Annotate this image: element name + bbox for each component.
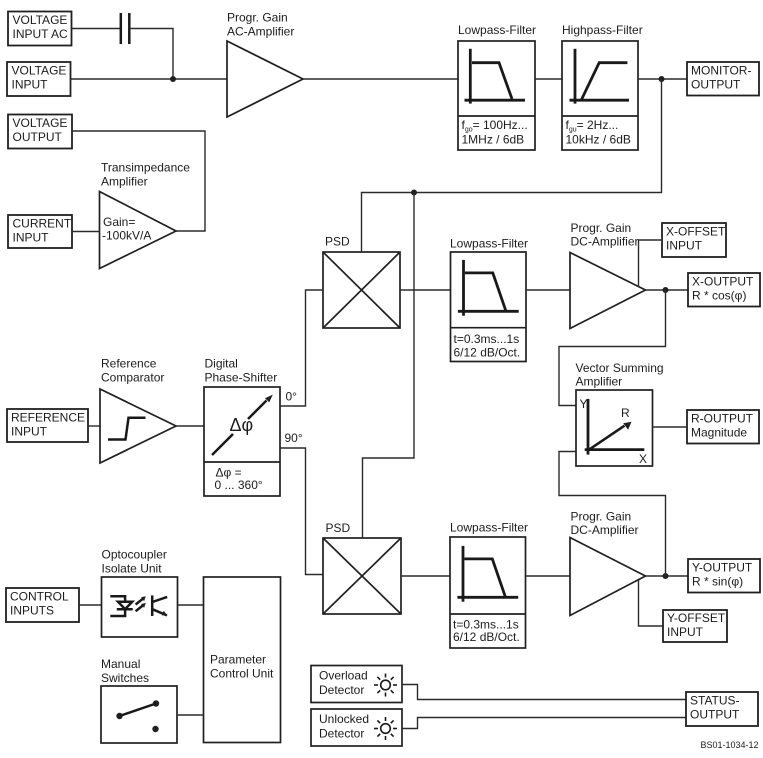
svg-text:Lowpass-Filter: Lowpass-Filter xyxy=(450,521,528,535)
svg-text:AC-Amplifier: AC-Amplifier xyxy=(227,25,294,39)
svg-text:90°: 90° xyxy=(285,431,303,445)
svg-text:Detector: Detector xyxy=(319,683,364,697)
box Y-OFFSET INPUT xyxy=(663,610,727,642)
svg-text:OUTPUT: OUTPUT xyxy=(690,708,740,722)
svg-text:OUTPUT: OUTPUT xyxy=(691,78,741,92)
svg-text:Unlocked: Unlocked xyxy=(319,712,369,726)
svg-text:INPUT AC: INPUT AC xyxy=(13,27,68,41)
wire lowpass 2 to X DC amp xyxy=(526,289,570,291)
box CURRENT INPUT xyxy=(8,215,72,248)
node X output junction xyxy=(663,287,669,293)
block Digital Phase-Shifter label xyxy=(205,357,278,385)
svg-text:Optocoupler: Optocoupler xyxy=(102,548,167,562)
wire 90-degree to PSD2 xyxy=(280,448,323,575)
svg-text:Switches: Switches xyxy=(101,671,149,685)
svg-text:Δφ: Δφ xyxy=(230,415,254,435)
wire Y amp to Y-offset xyxy=(639,580,664,626)
svg-text:6/12 dB/Oct.: 6/12 dB/Oct. xyxy=(454,346,521,360)
svg-text:t=0.3ms...1s: t=0.3ms...1s xyxy=(454,332,520,346)
box REFERENCE INPUT xyxy=(7,409,88,442)
svg-text:REFERENCE: REFERENCE xyxy=(11,411,85,425)
svg-text:10kHz / 6dB: 10kHz / 6dB xyxy=(566,133,631,147)
svg-text:Lowpass-Filter: Lowpass-Filter xyxy=(450,237,528,251)
wire Y amp to Y-output xyxy=(646,575,689,577)
svg-text:Lowpass-Filter: Lowpass-Filter xyxy=(458,23,536,37)
op-amp X DC-Amplifier xyxy=(570,253,646,329)
wire current input to transimpedance amp xyxy=(72,231,100,233)
block Optocoupler Isolate Unit xyxy=(102,577,178,637)
op-amp Reference Comparator xyxy=(100,389,176,463)
svg-text:Highpass-Filter: Highpass-Filter xyxy=(562,23,643,37)
wire voltage-input to AC amplifier xyxy=(71,78,228,80)
svg-text:CONTROL: CONTROL xyxy=(10,590,69,604)
block Manual Switches label xyxy=(101,657,149,685)
wire optocoupler to parameter control unit xyxy=(178,604,204,606)
node Y output junction xyxy=(663,573,669,579)
block Manual Switches xyxy=(101,686,177,743)
op-amp AC-Amplifier label xyxy=(227,11,294,39)
wire AC amp to lowpass xyxy=(303,78,458,80)
wire Y junction to vector summing xyxy=(559,452,666,577)
wire voltage output to transimpedance amp xyxy=(72,131,205,231)
box VOLTAGE OUTPUT xyxy=(8,115,72,149)
svg-text:BS01-1034-12: BS01-1034-12 xyxy=(701,740,759,750)
op-amp Reference Comparator label xyxy=(101,357,164,385)
block Lowpass-Filter 3 xyxy=(450,537,526,648)
box R-OUTPUT xyxy=(687,410,759,444)
block Lowpass-Filter 2 xyxy=(451,252,527,362)
block PSD 1 (multiplier) xyxy=(323,252,400,328)
svg-text:INPUT: INPUT xyxy=(13,231,50,245)
svg-text:Control Unit: Control Unit xyxy=(210,667,274,681)
svg-text:Isolate Unit: Isolate Unit xyxy=(102,562,163,576)
wire X-offset to X amp xyxy=(639,240,663,287)
op-amp Y DC-Amplifier xyxy=(570,538,646,616)
svg-text:DC-Amplifier: DC-Amplifier xyxy=(571,523,639,537)
svg-text:R: R xyxy=(621,406,630,420)
svg-text:Y: Y xyxy=(580,397,588,411)
svg-text:Parameter: Parameter xyxy=(210,653,266,667)
block Highpass-Filter xyxy=(562,41,638,150)
svg-text:Progr. Gain: Progr. Gain xyxy=(227,11,288,25)
box VOLTAGE INPUT AC xyxy=(8,12,72,46)
svg-text:R * sin(φ): R * sin(φ) xyxy=(692,575,743,589)
block Digital Phase-Shifter xyxy=(204,387,280,496)
svg-text:DC-Amplifier: DC-Amplifier xyxy=(571,235,639,249)
node PSD feed junction xyxy=(411,190,417,196)
wire comparator to phase shifter xyxy=(176,425,204,427)
box X-OUTPUT xyxy=(688,273,760,307)
svg-text:Gain=: Gain= xyxy=(103,215,135,229)
wire lowpass to highpass xyxy=(535,78,562,80)
svg-text:INPUT: INPUT xyxy=(667,625,704,639)
node monitor junction xyxy=(659,76,665,82)
block Vector Summing Amplifier label xyxy=(576,361,664,389)
svg-text:PSD: PSD xyxy=(326,521,351,535)
svg-text:VOLTAGE: VOLTAGE xyxy=(13,13,68,27)
svg-text:0 ... 360°: 0 ... 360° xyxy=(215,478,263,492)
box VOLTAGE INPUT xyxy=(7,62,71,96)
svg-text:1MHz / 6dB: 1MHz / 6dB xyxy=(462,133,525,147)
svg-text:6/12 dB/Oct.: 6/12 dB/Oct. xyxy=(453,630,520,644)
svg-text:Magnitude: Magnitude xyxy=(691,426,747,440)
svg-text:X: X xyxy=(639,452,647,466)
wire highpass to monitor output xyxy=(638,78,687,80)
svg-text:R-OUTPUT: R-OUTPUT xyxy=(691,412,754,426)
block Optocoupler label xyxy=(102,548,167,576)
wire X junction to vector summing xyxy=(559,290,666,406)
svg-text:Transimpedance: Transimpedance xyxy=(101,161,190,175)
block PSD 2 (multiplier) xyxy=(323,538,401,614)
svg-text:VOLTAGE: VOLTAGE xyxy=(12,63,67,77)
svg-text:Comparator: Comparator xyxy=(101,371,164,385)
wire unlocked to status output xyxy=(402,718,686,729)
block Lowpass-Filter 1 xyxy=(458,41,535,150)
wire PSD feed to PSD2 xyxy=(363,193,415,539)
box MONITOR-OUTPUT xyxy=(687,62,759,96)
wire manual switches to parameter control unit xyxy=(177,714,204,716)
wire X amp to X-output xyxy=(646,289,689,291)
block Vector Summing Amplifier xyxy=(576,390,653,466)
wire 0-degree to PSD1 xyxy=(280,290,323,406)
op-amp Y DC-Amplifier label xyxy=(571,510,639,538)
box X-OFFSET INPUT xyxy=(662,223,726,257)
svg-text:Progr. Gain: Progr. Gain xyxy=(571,221,632,235)
wire control inputs to optocoupler xyxy=(79,604,102,606)
svg-text:-100kV/A: -100kV/A xyxy=(102,229,151,243)
wire monitor junction down to PSD feed xyxy=(362,79,662,252)
svg-text:X-OFFSET: X-OFFSET xyxy=(666,225,726,239)
svg-text:MONITOR-: MONITOR- xyxy=(691,64,751,78)
svg-text:Detector: Detector xyxy=(319,727,364,741)
svg-text:CURRENT: CURRENT xyxy=(13,217,72,231)
svg-text:Amplifier: Amplifier xyxy=(576,375,623,389)
svg-text:Overload: Overload xyxy=(319,669,368,683)
block Parameter Control Unit xyxy=(204,577,281,743)
wire capacitor to node A xyxy=(129,29,173,80)
svg-text:PSD: PSD xyxy=(325,235,350,249)
svg-text:INPUTS: INPUTS xyxy=(10,604,54,618)
op-amp Transimpedance Amplifier xyxy=(100,192,177,269)
svg-text:Manual: Manual xyxy=(101,657,140,671)
op-amp AC-Amplifier xyxy=(227,41,303,117)
block Unlocked Detector xyxy=(311,709,402,746)
box Y-OUTPUT xyxy=(688,559,760,593)
svg-text:R * cos(φ): R * cos(φ) xyxy=(692,289,746,303)
wire vector summing to R-output xyxy=(653,426,688,428)
svg-text:Digital: Digital xyxy=(205,357,238,371)
svg-text:Vector Summing: Vector Summing xyxy=(576,361,664,375)
box CONTROL INPUTS xyxy=(6,588,79,622)
svg-text:Y-OUTPUT: Y-OUTPUT xyxy=(692,561,753,575)
svg-text:Reference: Reference xyxy=(101,357,157,371)
svg-text:VOLTAGE: VOLTAGE xyxy=(13,116,68,130)
box STATUS-OUTPUT xyxy=(686,692,758,726)
node A junction xyxy=(170,76,176,82)
svg-text:INPUT: INPUT xyxy=(666,239,703,253)
svg-text:0°: 0° xyxy=(286,390,298,404)
wire overload to status output xyxy=(402,685,686,700)
svg-text:OUTPUT: OUTPUT xyxy=(13,130,63,144)
capacitor C1 xyxy=(121,13,130,44)
op-amp Transimpedance label xyxy=(101,161,190,189)
svg-text:Amplifier: Amplifier xyxy=(101,175,148,189)
svg-text:Phase-Shifter: Phase-Shifter xyxy=(205,371,278,385)
block Overload Detector xyxy=(311,666,402,703)
svg-text:INPUT: INPUT xyxy=(11,425,48,439)
svg-text:X-OUTPUT: X-OUTPUT xyxy=(692,275,754,289)
svg-text:INPUT: INPUT xyxy=(12,77,49,91)
wire reference input to comparator xyxy=(88,425,100,427)
svg-text:Y-OFFSET: Y-OFFSET xyxy=(667,611,726,625)
wire input-ac to capacitor xyxy=(72,28,121,30)
svg-text:Progr. Gain: Progr. Gain xyxy=(571,510,632,524)
wire PSD1 to lowpass 2 xyxy=(400,289,451,291)
svg-text:STATUS-: STATUS- xyxy=(690,694,740,708)
wire lowpass 3 to Y DC amp xyxy=(526,575,571,577)
wire PSD2 to lowpass 3 xyxy=(401,575,450,577)
op-amp X DC-Amplifier label xyxy=(571,221,639,249)
